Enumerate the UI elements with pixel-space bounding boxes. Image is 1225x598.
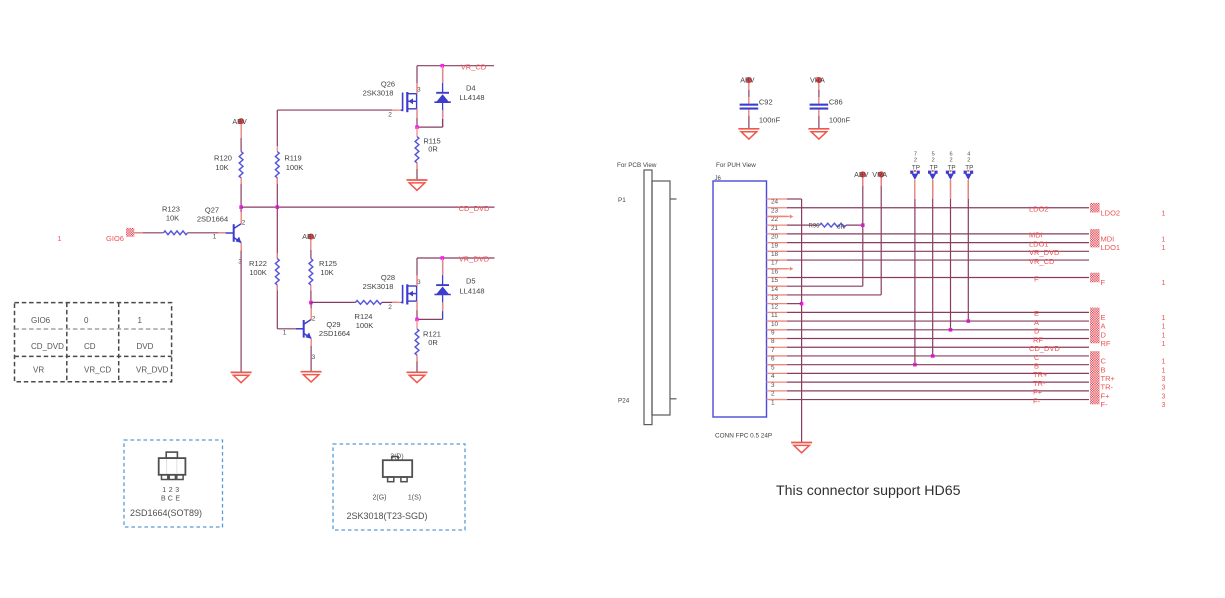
net label LDO1 on pin19 wire <box>1029 239 1049 248</box>
svg-text:R124: R124 <box>355 312 373 321</box>
diode D4 LL4148 <box>434 66 450 127</box>
svg-text:RF: RF <box>1101 339 1111 348</box>
svg-text:MDI: MDI <box>1029 231 1043 240</box>
wire R125 to gate node <box>310 285 312 303</box>
power ABV above connector <box>854 170 869 179</box>
package 2SK3018 T23-SGD outline <box>383 457 412 482</box>
wire pin11 net E <box>787 311 1089 313</box>
port C (off-page connector) <box>1090 351 1100 361</box>
wire pin23 net LDO2 <box>787 207 1089 209</box>
svg-text:A: A <box>1034 318 1039 327</box>
net label E on pin11 wire <box>1034 309 1039 318</box>
truth table box <box>15 303 172 382</box>
svg-text:4: 4 <box>771 373 775 380</box>
svg-text:R125: R125 <box>319 259 337 268</box>
port GIO6 (off-page connector) <box>126 228 134 237</box>
wire pin1 net F- <box>787 399 1089 401</box>
port label TR- <box>1101 383 1114 392</box>
svg-text:3: 3 <box>312 354 316 361</box>
svg-text:23: 23 <box>771 207 779 214</box>
svg-text:1: 1 <box>283 329 287 336</box>
port B (off-page connector) <box>1090 360 1100 370</box>
svg-text:1(S): 1(S) <box>408 495 421 502</box>
wire Q26 drain to VR_CD <box>416 66 418 94</box>
svg-text:0R: 0R <box>428 145 438 154</box>
ground Q29 emitter <box>301 372 322 382</box>
label 0R of R96 <box>837 225 845 231</box>
table text row VR VR_CD VR_DVD <box>33 366 169 375</box>
wire pin8 net RF <box>787 338 1089 340</box>
svg-text:D5: D5 <box>466 277 476 286</box>
port label E <box>1101 313 1106 322</box>
svg-text:CD: CD <box>84 342 96 351</box>
wire CD_DVD node to R122 <box>276 207 278 259</box>
svg-text:2: 2 <box>914 158 917 164</box>
pin 2 label Q29 collector <box>312 315 316 322</box>
net label MDI on pin20 wire <box>1029 231 1043 240</box>
resistor R122 <box>275 259 279 285</box>
node junction VR_DVD / D5 cathode <box>441 256 445 260</box>
wire R119 to CD_DVD node <box>276 178 278 207</box>
net label RF on pin8 wire <box>1033 335 1043 344</box>
net label F- on pin1 wire <box>1033 396 1041 405</box>
package 2SD1664 SOT89 outline <box>159 452 186 479</box>
wire pin21 to R96 <box>787 224 820 226</box>
svg-text:20: 20 <box>771 234 779 241</box>
ground R115 <box>407 180 428 190</box>
power ABV above R120 <box>232 117 247 126</box>
wire R121 to ground <box>416 355 418 372</box>
svg-text:TR-: TR- <box>1101 383 1114 392</box>
svg-text:2: 2 <box>312 315 316 322</box>
svg-text:VR_CD: VR_CD <box>461 62 487 71</box>
svg-text:100nF: 100nF <box>759 116 781 125</box>
wire CD_DVD net <box>241 206 494 208</box>
svg-text:2SD1664: 2SD1664 <box>319 329 350 338</box>
svg-text:2SD1664(SOT89): 2SD1664(SOT89) <box>130 508 202 518</box>
test point TP symbol 4 <box>964 170 974 180</box>
wire pin5 net B <box>787 364 1089 366</box>
connector J6 pin 9 <box>767 330 788 337</box>
svg-text:9: 9 <box>771 330 775 337</box>
wire Q27 emitter to ground <box>240 243 242 372</box>
label Q26 2SK3018 <box>363 79 396 97</box>
svg-text:CONN FPC 0.5 24P: CONN FPC 0.5 24P <box>715 433 772 440</box>
port pin number 1 of RF <box>1162 341 1166 348</box>
svg-text:ABV: ABV <box>854 170 869 179</box>
port label F <box>1101 278 1106 287</box>
connector J6 pin 14 <box>767 286 788 293</box>
node junction TP 3 <box>949 328 953 332</box>
svg-text:2: 2 <box>169 487 173 494</box>
connector J6 pin 1 <box>767 399 788 406</box>
svg-text:2: 2 <box>949 158 952 164</box>
wire pin18 net VR_DVD <box>787 250 1089 252</box>
net label B on pin5 wire <box>1034 361 1039 370</box>
connector J6 pin 6 <box>767 356 788 363</box>
wire pin7 net CD_DVD <box>787 346 1089 348</box>
port MDI (off-page connector) <box>1090 229 1100 239</box>
package 2SK3018 label 3(D) <box>390 453 403 460</box>
svg-text:6: 6 <box>949 151 952 157</box>
svg-text:10: 10 <box>771 321 779 328</box>
svg-text:22: 22 <box>771 216 779 223</box>
wire pin4 net TR+ <box>787 372 1089 374</box>
svg-text:B: B <box>1034 361 1039 370</box>
transistor Q29 2SD1664 <box>296 319 312 338</box>
wire TP 4 down to row <box>967 180 969 321</box>
svg-text:2SK3018: 2SK3018 <box>363 282 394 291</box>
wire Q29 collector to node <box>310 303 312 320</box>
wire ABV to C92 <box>748 83 750 103</box>
svg-text:R120: R120 <box>214 154 232 163</box>
svg-text:VR: VR <box>33 366 44 375</box>
node junction TP 4 <box>967 319 971 323</box>
PCB view connector drawing <box>644 170 677 425</box>
wire R120 to node CD_DVD <box>240 178 242 207</box>
svg-text:ABV: ABV <box>232 117 247 126</box>
svg-text:1: 1 <box>1162 367 1166 374</box>
label R121 0R <box>423 330 441 347</box>
net label VR_CD on pin17 wire <box>1029 257 1055 266</box>
svg-text:2SD1664: 2SD1664 <box>197 215 228 224</box>
port label B <box>1101 365 1106 374</box>
port label TR+ <box>1101 374 1116 383</box>
pin 3 label Q26 drain <box>417 87 421 94</box>
svg-text:1: 1 <box>1162 341 1166 348</box>
port label LDO2 <box>1101 208 1121 217</box>
port F+ (off-page connector) <box>1090 386 1100 396</box>
net label TR+ on pin4 wire <box>1033 370 1048 379</box>
connector J6 pin 21 <box>767 225 788 232</box>
wire VRA to C86 <box>818 83 820 103</box>
svg-text:5: 5 <box>932 151 935 157</box>
port RF (off-page connector) <box>1090 334 1100 344</box>
ground of connector bus <box>791 443 812 453</box>
svg-text:0: 0 <box>84 316 89 325</box>
svg-text:B: B <box>161 495 166 502</box>
svg-text:R119: R119 <box>284 154 301 163</box>
wire TP 2 down to row <box>932 180 934 356</box>
svg-text:CD_DVD: CD_DVD <box>31 342 64 351</box>
power VRA above C86 <box>810 76 825 85</box>
test point TP label 4 <box>965 164 973 171</box>
wire TP 1 down to row <box>914 180 916 365</box>
pin 2 label Q27 collector <box>242 220 246 227</box>
svg-text:2: 2 <box>771 391 775 398</box>
wire pin17 net VR_CD <box>787 259 1089 261</box>
wire pin20 net MDI <box>787 233 1089 235</box>
pin 2 label Q26 gate <box>388 112 392 119</box>
test point TP symbol 1 <box>910 170 920 180</box>
svg-text:2SK3018: 2SK3018 <box>363 88 394 97</box>
connector J6 CONN FPC 0.5 24P body <box>713 181 767 417</box>
connector J6 pin 11 <box>767 312 788 319</box>
port label C <box>1101 357 1107 366</box>
svg-text:VR_CD: VR_CD <box>84 366 111 375</box>
wire D4 anode to Q26 source node <box>417 119 443 127</box>
svg-text:6: 6 <box>771 356 775 363</box>
node junction R119/R122 on CD_DVD <box>276 205 280 209</box>
ground C86 <box>808 129 829 139</box>
pin 3 label Q29 emitter <box>312 354 316 361</box>
label R115 0R <box>423 136 440 153</box>
svg-text:LDO1: LDO1 <box>1029 239 1049 248</box>
node junction R96/ABV <box>861 223 865 227</box>
svg-text:3: 3 <box>1162 376 1166 383</box>
wire Q28 source <box>416 301 418 319</box>
net label D on pin9 wire <box>1034 327 1040 336</box>
svg-text:1: 1 <box>1162 236 1166 243</box>
package 2SD1664 pin labels B C E <box>161 495 180 502</box>
wire Q28 drain to VR_DVD <box>416 258 418 286</box>
svg-text:24: 24 <box>771 199 779 206</box>
svg-text:GIO6: GIO6 <box>106 234 124 243</box>
wire Q29 emitter to ground <box>310 339 312 371</box>
svg-text:F-: F- <box>1033 396 1041 405</box>
svg-text:1: 1 <box>1162 210 1166 217</box>
label 100nF of C92 <box>759 116 781 125</box>
package label 2SD1664(SOT89) <box>130 508 202 518</box>
svg-text:This connector support HD65: This connector support HD65 <box>776 483 961 499</box>
svg-text:21: 21 <box>771 225 779 232</box>
wire VR_DVD net <box>417 257 495 259</box>
net label CD_DVD on pin7 wire <box>1029 344 1060 353</box>
svg-text:D: D <box>1034 327 1040 336</box>
svg-text:1: 1 <box>213 234 217 241</box>
wire GIO6 to R123 <box>134 232 163 234</box>
svg-text:19: 19 <box>771 242 779 249</box>
wire TP 3 down to row <box>950 180 952 330</box>
net label VR_DVD on pin18 wire <box>1029 248 1060 257</box>
svg-text:15: 15 <box>771 277 779 284</box>
connector J6 pin 10 <box>767 321 788 328</box>
node junction VR_CD / D4 cathode <box>441 64 445 68</box>
svg-text:11: 11 <box>771 312 778 319</box>
wire C86 to ground <box>818 110 820 129</box>
wire VR_CD net <box>417 65 494 67</box>
svg-text:2SK3018(T23-SGD): 2SK3018(T23-SGD) <box>346 511 427 521</box>
resistor R120 <box>239 152 243 178</box>
resistor R124 <box>356 301 382 305</box>
svg-text:7: 7 <box>914 151 917 157</box>
svg-text:F: F <box>1034 274 1039 283</box>
port label F+ <box>1101 391 1111 400</box>
svg-text:14: 14 <box>771 286 779 293</box>
label R125 10K <box>319 259 337 277</box>
label R119 100K <box>284 154 303 172</box>
label Q29 2SD1664 <box>319 320 350 338</box>
svg-text:17: 17 <box>771 260 779 267</box>
ground C92 <box>738 129 759 139</box>
diode D5 LL4148 <box>434 258 450 319</box>
wire ABV to R120 <box>240 124 242 151</box>
label C92 <box>759 98 773 107</box>
wire VRA to pin13 <box>787 178 881 295</box>
svg-text:8: 8 <box>771 338 775 345</box>
svg-text:2: 2 <box>967 158 970 164</box>
svg-text:C: C <box>1101 357 1107 366</box>
port F (off-page connector) <box>1090 273 1100 283</box>
wire R96 to ABV bus <box>846 224 863 226</box>
port A (off-page connector) <box>1090 316 1100 326</box>
svg-text:16: 16 <box>771 268 779 275</box>
label R96 <box>808 224 820 230</box>
package 2SD1664 pin labels 1 2 3 <box>162 487 179 494</box>
test point TP label 3 <box>947 164 955 171</box>
pin 1 label Q29 base <box>283 329 287 336</box>
port label F- <box>1101 400 1109 409</box>
svg-text:R123: R123 <box>162 205 180 214</box>
svg-text:VR_DVD: VR_DVD <box>1029 248 1060 257</box>
power VRA above connector <box>872 170 887 179</box>
svg-text:TR+: TR+ <box>1101 374 1116 383</box>
svg-text:GIO6: GIO6 <box>31 316 51 325</box>
svg-text:3: 3 <box>175 487 179 494</box>
resistor R115 <box>415 127 419 163</box>
test point TP42 designator digits <box>967 151 970 163</box>
connector J6 pin 2 <box>767 391 788 398</box>
svg-text:VR_CD: VR_CD <box>1029 257 1055 266</box>
wire Q27 collector to CD_DVD node <box>240 207 242 224</box>
net label C on pin6 wire <box>1034 353 1040 362</box>
svg-text:D4: D4 <box>466 83 476 92</box>
svg-text:ABV: ABV <box>302 232 317 241</box>
svg-text:Q28: Q28 <box>381 273 395 282</box>
svg-text:2: 2 <box>242 220 246 227</box>
node junction TP 2 <box>931 354 935 358</box>
label R122 100K <box>249 259 267 277</box>
port LDO1 (off-page connector) <box>1090 238 1100 248</box>
label C86 <box>829 98 843 107</box>
svg-text:F+: F+ <box>1033 388 1043 397</box>
package 2SK3018 pin label 1(S) <box>408 495 421 502</box>
wire pin19 net LDO1 <box>787 242 1089 244</box>
package drawing box 2SK3018 <box>333 444 465 530</box>
svg-text:0R: 0R <box>837 225 845 231</box>
svg-text:F-: F- <box>1101 400 1109 409</box>
pin 3 label Q27 emitter <box>238 259 242 266</box>
svg-text:3: 3 <box>1162 385 1166 392</box>
label D5 LL4148 <box>459 277 484 296</box>
wire R122 to Q29 base <box>277 285 295 329</box>
svg-text:2(G): 2(G) <box>373 495 387 502</box>
label Q27 2SD1664 <box>197 206 228 224</box>
svg-text:VRA: VRA <box>872 170 887 179</box>
svg-text:1: 1 <box>1162 332 1166 339</box>
connector J6 pin 4 <box>767 373 788 380</box>
svg-text:LL4148: LL4148 <box>459 286 484 295</box>
svg-text:3: 3 <box>771 382 775 389</box>
node junction Q26 source / R115 <box>415 125 419 129</box>
no-connect stub pin22 <box>767 214 794 218</box>
wire R115 to ground <box>416 163 418 180</box>
svg-text:13: 13 <box>771 295 779 302</box>
wire pin9 net D <box>787 329 1089 331</box>
port pin number 1 of E <box>1162 315 1166 322</box>
wire ABV to R125 <box>310 240 312 259</box>
svg-text:100K: 100K <box>249 268 267 277</box>
node junction pin12 on ground bus <box>800 302 804 306</box>
svg-text:RF: RF <box>1033 335 1043 344</box>
svg-text:1: 1 <box>1162 324 1166 331</box>
package 2SK3018 pin label 2(G) <box>373 495 387 502</box>
label R120 10K <box>214 154 232 172</box>
net label LDO2 on pin23 wire <box>1029 205 1049 214</box>
connector J6 pin 20 <box>767 234 788 241</box>
port pin number 1 of F <box>1162 280 1166 287</box>
resistor R123 <box>164 231 188 235</box>
svg-text:18: 18 <box>771 251 779 258</box>
label J6 <box>715 176 722 182</box>
port label D <box>1101 330 1107 339</box>
port label MDI <box>1101 234 1115 243</box>
port pin number 1 of D <box>1162 332 1166 339</box>
svg-text:C86: C86 <box>829 98 843 107</box>
connector J6 pin 16 <box>767 268 788 275</box>
label For PUH View <box>716 162 756 169</box>
note text This connector support HD65 <box>776 483 961 499</box>
ground R121 <box>407 372 428 382</box>
port F- (off-page connector) <box>1090 395 1100 405</box>
test point TP symbol 3 <box>946 170 956 180</box>
svg-text:100K: 100K <box>286 163 304 172</box>
test point TP symbol 2 <box>928 170 938 180</box>
svg-text:D: D <box>1101 330 1107 339</box>
port pin number 1 of MDI <box>1162 236 1166 243</box>
svg-text:VR_DVD: VR_DVD <box>459 255 490 264</box>
svg-text:F: F <box>1101 278 1106 287</box>
svg-text:TR-: TR- <box>1033 379 1046 388</box>
svg-text:12: 12 <box>771 303 779 310</box>
svg-text:Q27: Q27 <box>205 206 219 215</box>
package label 2SK3018(T23-SGD) <box>346 511 427 521</box>
svg-text:P24: P24 <box>618 397 630 404</box>
svg-text:1: 1 <box>138 316 143 325</box>
pin 2 label Q28 gate <box>388 304 392 311</box>
capacitor C92 100nF <box>740 104 759 110</box>
svg-text:LDO2: LDO2 <box>1029 205 1049 214</box>
wire pin15 net F <box>787 276 1089 278</box>
svg-text:1: 1 <box>1162 359 1166 366</box>
svg-text:1: 1 <box>1162 245 1166 252</box>
port LDO2 (off-page connector) <box>1090 203 1100 213</box>
svg-text:1: 1 <box>1162 280 1166 287</box>
svg-text:MDI: MDI <box>1101 234 1115 243</box>
label P24 <box>618 397 630 404</box>
svg-text:0R: 0R <box>428 338 438 347</box>
svg-text:1: 1 <box>771 399 775 406</box>
power ABV above C92 <box>740 76 755 85</box>
svg-text:2: 2 <box>388 304 392 311</box>
net label VR_DVD <box>459 255 490 264</box>
svg-text:B: B <box>1101 365 1106 374</box>
port D (off-page connector) <box>1090 325 1100 335</box>
wire R119 top to Q26 gate <box>277 110 400 146</box>
test point TP52 designator digits <box>932 151 935 163</box>
net label GIO6 <box>106 234 124 243</box>
test point TP label 1 <box>912 164 920 171</box>
port TR+ (off-page connector) <box>1090 369 1100 379</box>
port label RF <box>1101 339 1111 348</box>
port pin number 3 of TR+ <box>1162 376 1166 383</box>
wire ABV to pin14 <box>787 178 863 287</box>
test point TP62 designator digits <box>949 151 952 163</box>
connector J6 pin 12 <box>767 303 788 310</box>
port label A <box>1101 322 1106 331</box>
svg-text:4: 4 <box>967 151 970 157</box>
port pin number 1 of LDO2 <box>1162 210 1166 217</box>
